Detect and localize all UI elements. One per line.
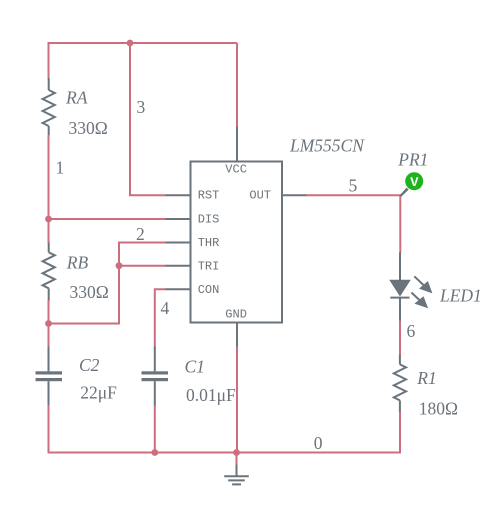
svg-text:C2: C2 xyxy=(79,355,100,375)
junction: C1 on bottom rail xyxy=(151,449,158,456)
svg-text:330Ω: 330Ω xyxy=(69,118,108,138)
junction: top rail / net 3 xyxy=(127,40,134,47)
ground xyxy=(224,465,249,485)
resistor RA xyxy=(43,78,55,136)
label: C2 xyxy=(79,355,100,375)
wire: R1 to bottom rail xyxy=(399,412,401,454)
label: net 3 xyxy=(137,97,146,117)
pin label OUT xyxy=(249,189,271,203)
wire: net 1, RA bottom to DIS junction xyxy=(48,135,50,219)
value: 22uF (C2) xyxy=(80,383,117,403)
svg-text:GND: GND xyxy=(225,308,247,322)
svg-text:THR: THR xyxy=(198,236,220,250)
svg-text:4: 4 xyxy=(161,298,170,318)
svg-text:LM555CN: LM555CN xyxy=(289,136,365,156)
svg-text:0.01μF: 0.01μF xyxy=(186,385,236,405)
wire: TRI horizontal to pin xyxy=(119,265,166,267)
resistor RB xyxy=(43,243,55,302)
svg-text:0: 0 xyxy=(314,433,323,453)
wire: C2 to bottom rail xyxy=(48,405,50,454)
probe PR1 body xyxy=(405,172,423,190)
junction: ground node on bottom rail xyxy=(233,449,240,456)
pin DIS stub xyxy=(166,218,191,220)
svg-text:DIS: DIS xyxy=(198,213,220,227)
svg-text:RB: RB xyxy=(66,252,89,272)
svg-text:PR1: PR1 xyxy=(397,149,428,169)
svg-text:RST: RST xyxy=(198,189,220,203)
resistor R1 xyxy=(394,355,406,413)
pin OUT stub xyxy=(283,194,307,196)
svg-text:LED1: LED1 xyxy=(439,285,482,305)
svg-text:180Ω: 180Ω xyxy=(419,399,458,419)
wire: DIS horizontal to pin xyxy=(49,218,167,220)
pin TRI stub xyxy=(166,265,191,267)
label: PR1 xyxy=(397,149,428,169)
pin label GND xyxy=(225,308,247,322)
label: RB xyxy=(66,252,89,272)
wire: net 5 OUT to probe corner and down to LED xyxy=(306,195,400,253)
value: 0.01uF (C1) xyxy=(186,385,236,405)
value: 330&#937; (RB) xyxy=(70,282,109,302)
wire: left rail top to RA xyxy=(48,42,50,79)
svg-text:5: 5 xyxy=(349,175,358,195)
pin GND stub (bottom) xyxy=(236,323,238,347)
svg-text:TRI: TRI xyxy=(198,260,220,274)
pin label DIS xyxy=(198,213,220,227)
svg-text:RA: RA xyxy=(65,88,88,108)
svg-text:3: 3 xyxy=(137,97,146,117)
label: RA xyxy=(65,88,88,108)
wire: bottom rail net 0 xyxy=(49,452,401,454)
label: C1 xyxy=(185,356,205,376)
svg-text:6: 6 xyxy=(407,321,416,341)
wire: DIS junction down to RB xyxy=(48,219,50,243)
wire: junction to ground symbol xyxy=(236,453,238,466)
wire: junction to C2 xyxy=(48,324,50,348)
label: net 1 xyxy=(56,158,65,178)
wire: RB bottom to junction xyxy=(48,300,50,324)
label: net 2 xyxy=(136,224,145,244)
svg-text:2: 2 xyxy=(136,224,145,244)
label: net 4 xyxy=(161,298,170,318)
wire: GND pin to bottom rail xyxy=(236,347,238,453)
pin label CON xyxy=(198,283,220,297)
label: net 6 xyxy=(407,321,416,341)
pin label THR xyxy=(198,236,220,250)
svg-text:CON: CON xyxy=(198,283,220,297)
svg-text:OUT: OUT xyxy=(249,189,271,203)
pin THR stub xyxy=(166,242,191,244)
value: 180&#937; (R1) xyxy=(419,399,458,419)
wire: net 6 LED to R1 xyxy=(399,321,401,356)
svg-text:VCC: VCC xyxy=(225,162,247,176)
label: R1 xyxy=(416,368,436,388)
pin RST stub xyxy=(166,194,191,196)
probe PR1 needle xyxy=(400,188,409,197)
pin label TRI xyxy=(198,260,220,274)
capacitor C2 xyxy=(36,347,63,406)
pin CON stub xyxy=(166,288,191,290)
wire: net 4 CON to C1 xyxy=(155,289,166,347)
wire: net 2 THR loop xyxy=(49,243,167,324)
label: net 5 xyxy=(349,175,358,195)
value: 330&#937; (RA) xyxy=(69,118,108,138)
wire: top rail net VCC xyxy=(49,42,238,44)
label: LED1 xyxy=(439,285,482,305)
pin label RST xyxy=(198,189,220,203)
wire: net 3 from top rail to RST pin xyxy=(130,43,166,195)
junction: RB bottom / net 2 xyxy=(45,320,52,327)
junction: DIS node on left rail xyxy=(45,216,52,223)
label: net 0 xyxy=(314,433,323,453)
junction: TRI node xyxy=(116,262,123,269)
wire: C1 to bottom rail xyxy=(154,405,156,453)
capacitor C1 xyxy=(142,347,169,406)
svg-text:330Ω: 330Ω xyxy=(70,282,109,302)
label: LM555CN xyxy=(289,136,365,156)
wire: VCC drop to IC xyxy=(236,43,238,127)
pin VCC stub (top) xyxy=(236,127,238,162)
svg-text:1: 1 xyxy=(56,158,65,178)
svg-text:C1: C1 xyxy=(185,356,205,376)
svg-text:R1: R1 xyxy=(416,368,436,388)
op-amp/timer U1 LM555CN body xyxy=(191,162,283,323)
pin label VCC xyxy=(225,162,247,176)
LED LED1 xyxy=(389,252,432,321)
svg-text:22μF: 22μF xyxy=(80,383,117,403)
